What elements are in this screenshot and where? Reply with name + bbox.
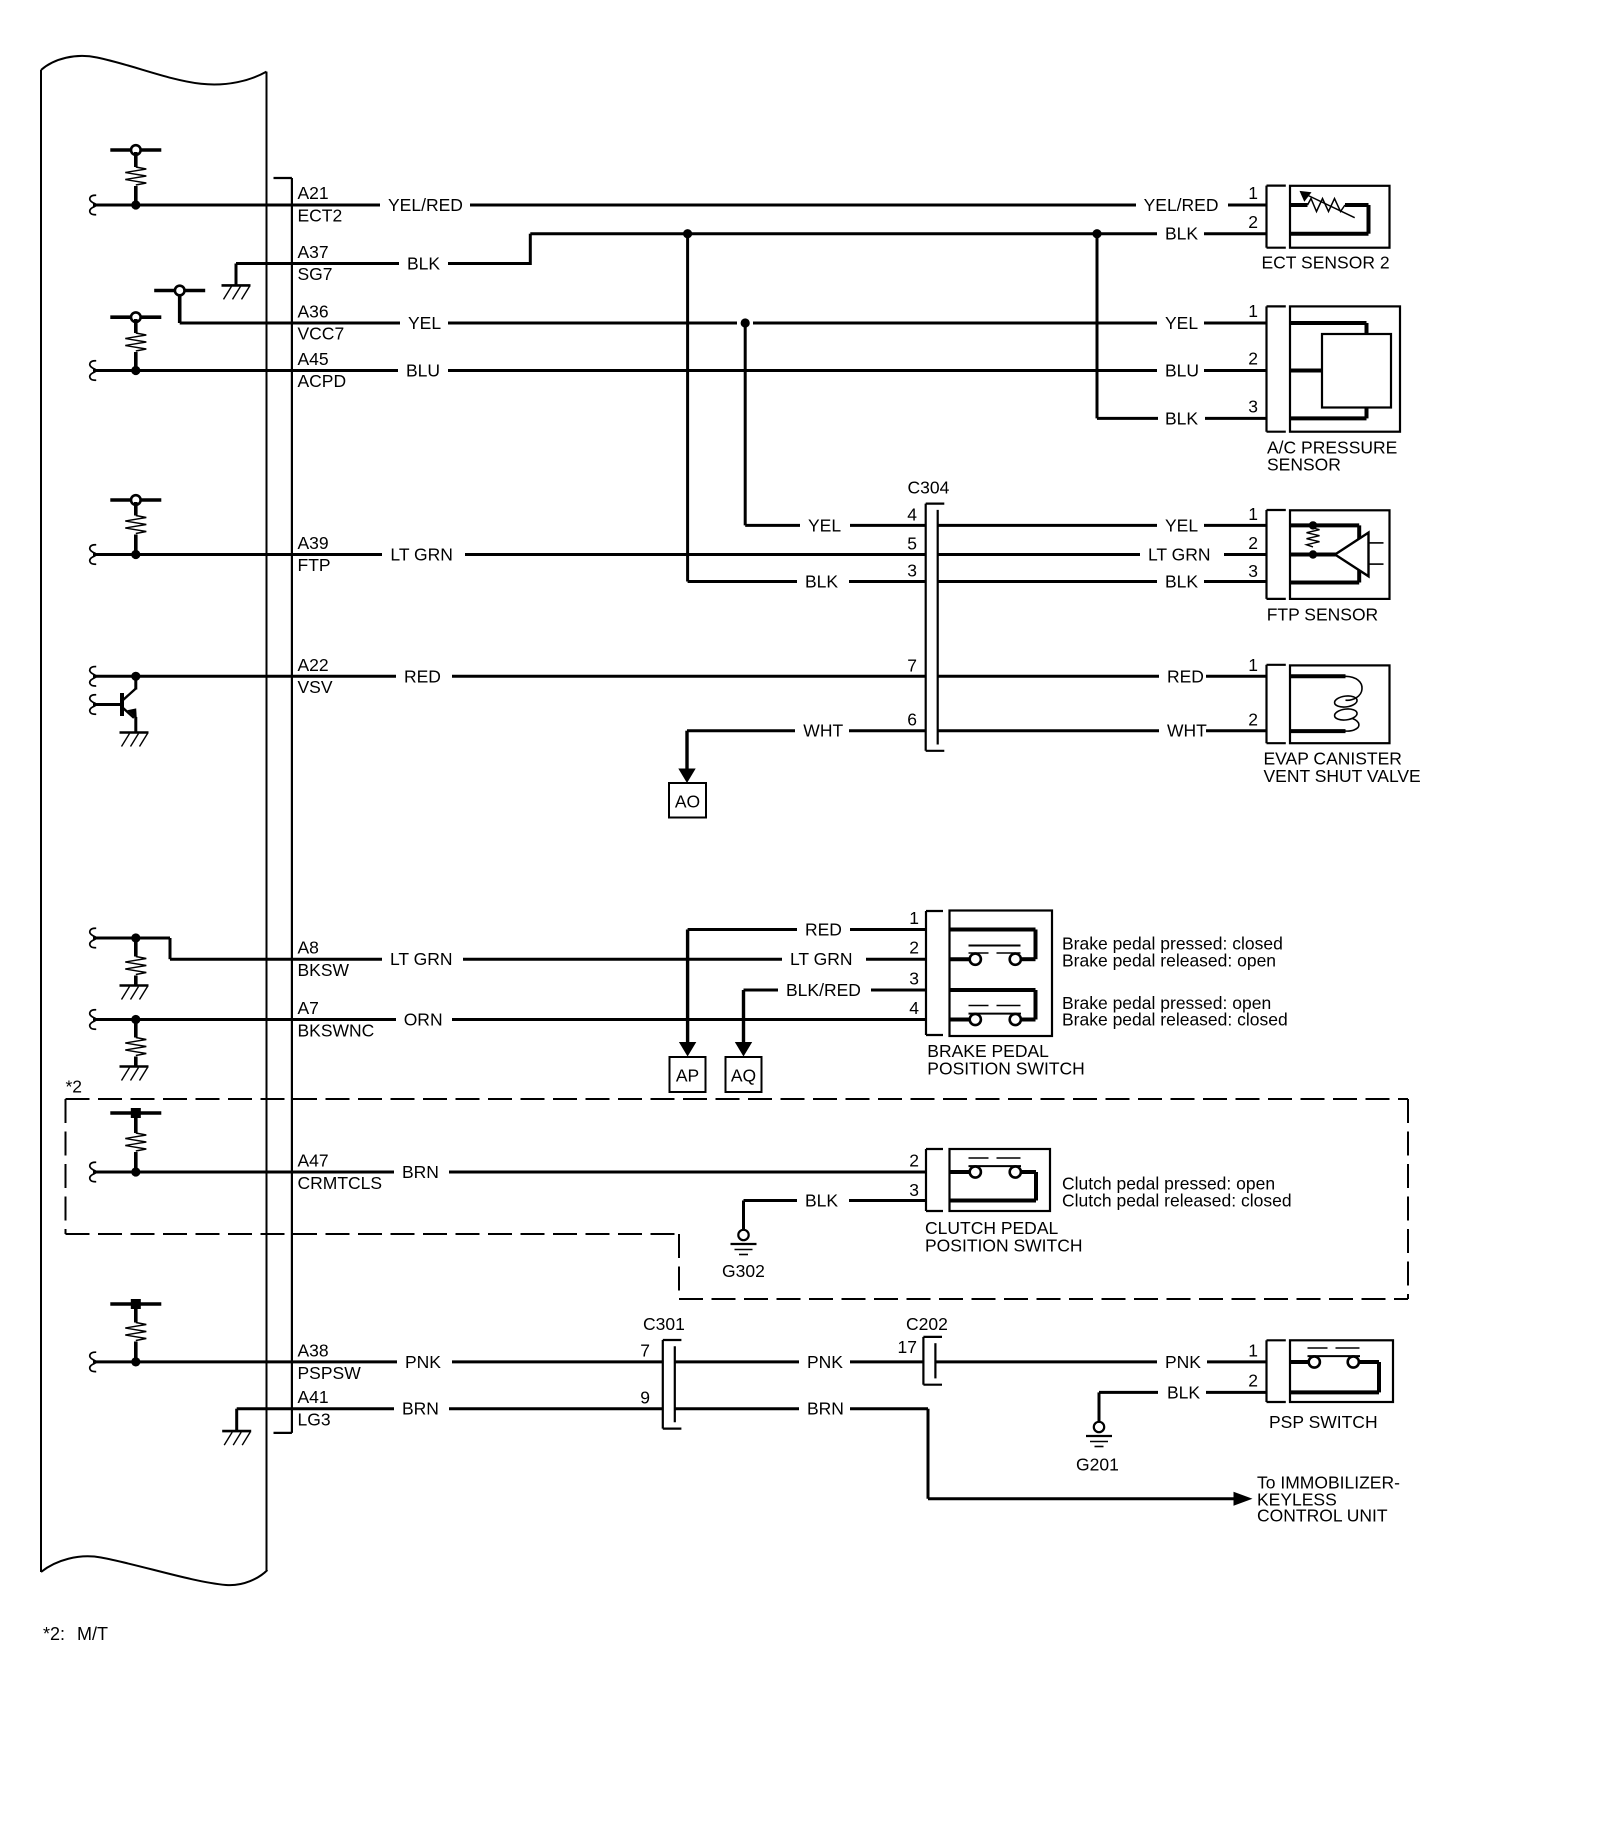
pin 2 (ECT sensor) bbox=[1248, 212, 1258, 232]
label LT GRN (A8 left) bbox=[390, 949, 453, 969]
svg-text:*2:: *2: bbox=[43, 1624, 65, 1644]
label BLU (right) bbox=[1165, 361, 1199, 381]
terminal label ACPD bbox=[298, 371, 347, 391]
svg-text:YEL: YEL bbox=[1165, 515, 1198, 535]
svg-text:17: 17 bbox=[898, 1337, 917, 1357]
pin label A38 bbox=[298, 1340, 329, 1360]
svg-text:AO: AO bbox=[675, 792, 700, 812]
note clutch switch states bbox=[1062, 1174, 1292, 1211]
svg-text:LT GRN: LT GRN bbox=[790, 949, 853, 969]
svg-text:1: 1 bbox=[1248, 655, 1258, 675]
label YEL (left) bbox=[408, 313, 441, 333]
wire WHT (C304 pin 6) bbox=[687, 729, 1267, 732]
svg-text:3: 3 bbox=[909, 1180, 919, 1200]
svg-text:LT GRN: LT GRN bbox=[390, 545, 453, 565]
svg-text:3: 3 bbox=[1248, 397, 1258, 417]
label LT GRN (brake switch side) bbox=[790, 949, 853, 969]
resistor pull-up (A47 CRMTCLS line) bbox=[110, 1108, 161, 1172]
svg-text:LG3: LG3 bbox=[298, 1410, 331, 1430]
connector bracket EVAP valve bbox=[1267, 665, 1286, 743]
node box AP bbox=[670, 1057, 706, 1092]
svg-text:3: 3 bbox=[909, 969, 919, 989]
svg-text:YEL/RED: YEL/RED bbox=[388, 195, 463, 215]
svg-text:YEL: YEL bbox=[408, 313, 441, 333]
svg-text:YEL/RED: YEL/RED bbox=[1144, 195, 1219, 215]
wire BLK (clutch switch pin 3) bbox=[744, 1201, 927, 1230]
svg-text:BLK: BLK bbox=[1165, 408, 1198, 428]
terminal label FTP bbox=[298, 555, 331, 575]
component box BRAKE PEDAL POSITION SWITCH bbox=[950, 911, 1053, 1037]
note To IMMOBILIZER-KEYLESS CONTROL UNIT bbox=[1257, 1473, 1400, 1526]
svg-text:BLK: BLK bbox=[407, 254, 440, 274]
svg-text:2: 2 bbox=[1248, 1370, 1258, 1390]
svg-text:A37: A37 bbox=[298, 242, 329, 262]
svg-text:RED: RED bbox=[404, 666, 441, 686]
svg-text:LT GRN: LT GRN bbox=[390, 949, 453, 969]
label A/C PRESSURE SENSOR bbox=[1267, 438, 1397, 475]
pin 9 (C301) bbox=[640, 1388, 650, 1408]
svg-text:G302: G302 bbox=[722, 1261, 765, 1281]
junction on A22 wire bbox=[131, 672, 140, 681]
ground (A8 pull-down) bbox=[120, 986, 149, 1000]
svg-text:PSPSW: PSPSW bbox=[298, 1363, 362, 1383]
svg-text:WHT: WHT bbox=[1167, 721, 1207, 741]
arrow to AO bbox=[678, 731, 695, 783]
svg-text:ACPD: ACPD bbox=[298, 371, 347, 391]
node box AQ bbox=[726, 1057, 762, 1092]
terminal label BKSWNC bbox=[298, 1021, 375, 1041]
note *2: M/T bbox=[43, 1624, 108, 1644]
pin 2 (PSP switch) bbox=[1248, 1370, 1258, 1390]
pin label A47 bbox=[298, 1151, 329, 1171]
wire A39 FTP LT GRN bbox=[90, 545, 926, 564]
wire A38 PSPSW PNK bbox=[90, 1352, 663, 1371]
connector bracket brake pedal switch bbox=[926, 911, 943, 1035]
label PNK (left) bbox=[405, 1352, 441, 1372]
svg-text:A8: A8 bbox=[298, 938, 319, 958]
resistor pull-up (A45 ACPD line) bbox=[110, 312, 161, 370]
wire A36 VCC7 YEL bbox=[180, 322, 1267, 325]
svg-text:PNK: PNK bbox=[1165, 1352, 1201, 1372]
solenoid coil inside EVAP valve bbox=[1290, 676, 1362, 731]
svg-text:FTP: FTP bbox=[298, 555, 331, 575]
svg-text:VCC7: VCC7 bbox=[298, 324, 345, 344]
wire BRN (C301 to immobilizer) bbox=[675, 1409, 1235, 1499]
label YEL/RED (right) bbox=[1144, 195, 1219, 215]
label YEL (C304 side) bbox=[808, 515, 841, 535]
pin 4 (C304) bbox=[907, 504, 917, 524]
wire YEL down to C304 pin 4 bbox=[745, 323, 926, 525]
pin 2 (clutch switch) bbox=[909, 1151, 919, 1171]
svg-text:PNK: PNK bbox=[405, 1352, 441, 1372]
wire YEL/RED (right) bbox=[1228, 204, 1267, 207]
label C304 bbox=[908, 478, 950, 498]
svg-text:2: 2 bbox=[909, 938, 919, 958]
svg-text:PNK: PNK bbox=[807, 1352, 843, 1372]
label RED (left) bbox=[404, 666, 441, 686]
switch contacts (PSP NC) bbox=[1290, 1348, 1379, 1392]
label BLU (left) bbox=[406, 361, 440, 381]
ground LG3 (inside ECU) bbox=[222, 1409, 292, 1445]
internal element FTP sensor bbox=[1290, 521, 1384, 582]
wire BLK/RED (brake switch pin 3) bbox=[744, 989, 927, 992]
svg-text:BLK: BLK bbox=[1167, 1382, 1200, 1402]
label BLK (A37) bbox=[407, 254, 440, 274]
svg-text:7: 7 bbox=[640, 1341, 650, 1361]
wire A8 BKSW LT GRN bbox=[170, 958, 926, 961]
pin 2 (FTP sensor) bbox=[1248, 533, 1258, 553]
pin 7 (C301) bbox=[640, 1341, 650, 1361]
svg-text:A7: A7 bbox=[298, 998, 319, 1018]
svg-text:SG7: SG7 bbox=[298, 264, 333, 284]
pin label A7 bbox=[298, 998, 319, 1018]
terminal label VSV bbox=[298, 677, 333, 697]
label BLK (PSP) bbox=[1167, 1382, 1200, 1402]
arrow to immobilizer unit bbox=[1234, 1492, 1253, 1506]
resistor pull-up (A38 PSPSW line) bbox=[110, 1299, 161, 1362]
pin 3 (A/C sensor) bbox=[1248, 397, 1258, 417]
label BLK/RED bbox=[786, 980, 861, 1000]
svg-text:BKSWNC: BKSWNC bbox=[298, 1021, 375, 1041]
svg-text:BLU: BLU bbox=[406, 361, 440, 381]
svg-text:A39: A39 bbox=[298, 533, 329, 553]
label PNK (mid) bbox=[807, 1352, 843, 1372]
internal element A/C pressure sensor bbox=[1290, 323, 1391, 418]
pin 5 (C304) bbox=[907, 534, 917, 554]
svg-text:YEL: YEL bbox=[808, 515, 841, 535]
junction on A39 wire bbox=[131, 550, 140, 559]
terminal label VCC7 bbox=[298, 324, 345, 344]
label BRN (A41) bbox=[402, 1399, 439, 1419]
svg-text:3: 3 bbox=[907, 561, 917, 581]
label PNK (right) bbox=[1165, 1352, 1201, 1372]
dashed box (M/T only section) bbox=[66, 1099, 1409, 1299]
note brake switch states 2 bbox=[1062, 993, 1288, 1030]
pin 1 (FTP sensor) bbox=[1248, 504, 1258, 524]
switch contacts (brake NO, pins 1-2) bbox=[950, 930, 1036, 965]
arrow to AQ bbox=[735, 990, 752, 1057]
svg-text:2: 2 bbox=[909, 1151, 919, 1171]
pin label A36 bbox=[298, 302, 329, 322]
pin label A21 bbox=[298, 183, 329, 203]
svg-text:FTP SENSOR: FTP SENSOR bbox=[1267, 605, 1379, 625]
svg-text:BRN: BRN bbox=[402, 1399, 439, 1419]
svg-text:A22: A22 bbox=[298, 655, 329, 675]
junction BLK to A/C sensor bbox=[1092, 229, 1101, 238]
svg-text:ORN: ORN bbox=[404, 1010, 443, 1030]
svg-text:9: 9 bbox=[640, 1388, 650, 1408]
svg-text:*2: *2 bbox=[66, 1077, 83, 1097]
svg-text:5: 5 bbox=[907, 534, 917, 554]
component box CLUTCH PEDAL POSITION SWITCH bbox=[950, 1149, 1051, 1211]
pin 1 (EVAP valve) bbox=[1248, 655, 1258, 675]
svg-text:3: 3 bbox=[1248, 561, 1258, 581]
connector bracket clutch pedal switch bbox=[926, 1149, 943, 1211]
ECU control module outline (torn box) bbox=[41, 56, 267, 1585]
wire RED (C304 to EVAP valve) bbox=[938, 675, 1267, 678]
svg-text:1: 1 bbox=[1248, 183, 1258, 203]
svg-text:BRN: BRN bbox=[807, 1399, 844, 1419]
svg-text:A47: A47 bbox=[298, 1151, 329, 1171]
component box FTP SENSOR bbox=[1290, 510, 1390, 599]
wire BLK (PSP switch pin 2) bbox=[1099, 1392, 1267, 1421]
svg-text:SENSOR: SENSOR bbox=[1267, 455, 1341, 475]
label BRN (A47) bbox=[402, 1162, 439, 1182]
label LT GRN (left) bbox=[390, 545, 453, 565]
wire PNK (C301 to C202) bbox=[675, 1360, 924, 1363]
svg-text:RED: RED bbox=[1167, 666, 1204, 686]
terminal label BKSW bbox=[298, 960, 350, 980]
resistor to ground (A7 BKSWNC line) bbox=[90, 1010, 147, 1067]
ground SG7 (inside ECU) bbox=[222, 264, 292, 300]
pin 1 (A/C sensor) bbox=[1248, 301, 1258, 321]
pin label A39 bbox=[298, 533, 329, 553]
wire YEL (C304 to FTP pin 1) bbox=[938, 524, 1267, 527]
label BLK (ECT sensor side) bbox=[1165, 224, 1198, 244]
pin 1 (PSP switch) bbox=[1248, 1340, 1258, 1360]
label RED (brake) bbox=[805, 920, 842, 940]
label BLK (A/C sensor pin 3) bbox=[1165, 408, 1198, 428]
svg-text:LT GRN: LT GRN bbox=[1148, 545, 1211, 565]
pin 17 (C202) bbox=[898, 1337, 917, 1357]
svg-text:1: 1 bbox=[909, 908, 919, 928]
svg-text:ECT SENSOR 2: ECT SENSOR 2 bbox=[1262, 253, 1390, 273]
svg-text:1: 1 bbox=[1248, 1340, 1258, 1360]
connector bracket A/C pressure sensor bbox=[1267, 306, 1286, 431]
svg-text:BLU: BLU bbox=[1165, 361, 1199, 381]
svg-text:POSITION SWITCH: POSITION SWITCH bbox=[927, 1059, 1085, 1079]
ground G302 bbox=[731, 1230, 757, 1255]
pin 2 (EVAP valve) bbox=[1248, 710, 1258, 730]
svg-text:BLK: BLK bbox=[1165, 224, 1198, 244]
resistor to ground (A8 BKSW line) bbox=[90, 928, 170, 985]
svg-text:2: 2 bbox=[1248, 710, 1258, 730]
svg-text:2: 2 bbox=[1248, 212, 1258, 232]
junction on A47 wire bbox=[131, 1167, 140, 1176]
junction on A38 wire bbox=[131, 1357, 140, 1366]
connector bracket FTP sensor bbox=[1267, 510, 1286, 599]
svg-text:M/T: M/T bbox=[77, 1624, 108, 1644]
svg-text:CRMTCLS: CRMTCLS bbox=[298, 1173, 383, 1193]
switch contacts (clutch NC) bbox=[950, 1158, 1037, 1201]
svg-text:BRN: BRN bbox=[402, 1162, 439, 1182]
svg-text:7: 7 bbox=[907, 655, 917, 675]
label FTP SENSOR bbox=[1267, 605, 1379, 625]
label RED (right) bbox=[1167, 666, 1204, 686]
label YEL (right) bbox=[1165, 313, 1198, 333]
connector bracket PSP switch bbox=[1267, 1340, 1286, 1402]
label G302 bbox=[722, 1261, 765, 1281]
svg-text:G201: G201 bbox=[1076, 1455, 1119, 1475]
wire A7 BKSWNC ORN bbox=[93, 1018, 926, 1021]
label YEL (FTP side) bbox=[1165, 515, 1198, 535]
label PSP SWITCH bbox=[1269, 1412, 1378, 1432]
wire A47 CRMTCLS BRN bbox=[90, 1162, 926, 1181]
label BLK (clutch) bbox=[805, 1191, 838, 1211]
label G201 bbox=[1076, 1455, 1119, 1475]
svg-text:C202: C202 bbox=[906, 1314, 948, 1334]
wire LT GRN (C304 to FTP sensor) bbox=[938, 553, 1267, 556]
label BLK (FTP side) bbox=[1165, 572, 1198, 592]
note *2 bbox=[66, 1077, 83, 1097]
pin 3 (clutch switch) bbox=[909, 1180, 919, 1200]
label EVAP CANISTER VENT SHUT VALVE bbox=[1264, 749, 1421, 787]
pin 6 (C304) bbox=[907, 710, 917, 730]
connector C202 bbox=[923, 1337, 942, 1385]
terminal label LG3 bbox=[298, 1410, 331, 1430]
connector C301 bbox=[663, 1340, 682, 1429]
wire BLK (C304 to FTP pin 3) bbox=[938, 580, 1267, 583]
label BLK (C304 side) bbox=[805, 572, 838, 592]
wire A41 LG3 BRN bbox=[292, 1407, 663, 1410]
svg-text:A45: A45 bbox=[298, 349, 329, 369]
svg-text:2: 2 bbox=[1248, 533, 1258, 553]
junction on A21 wire bbox=[131, 200, 140, 209]
svg-text:1: 1 bbox=[1248, 504, 1258, 524]
svg-text:4: 4 bbox=[907, 504, 917, 524]
component box A/C PRESSURE SENSOR bbox=[1290, 306, 1400, 431]
resistor pull-up (A39 FTP line) bbox=[110, 495, 161, 554]
switch contacts (brake NC, pins 3-4) bbox=[950, 990, 1036, 1025]
terminal label SG7 bbox=[298, 264, 333, 284]
label C301 bbox=[643, 1314, 685, 1334]
svg-text:Brake pedal released: open: Brake pedal released: open bbox=[1062, 951, 1276, 971]
svg-text:ECT2: ECT2 bbox=[298, 206, 343, 226]
arrow to AP bbox=[679, 930, 696, 1057]
svg-text:BLK/RED: BLK/RED bbox=[786, 980, 861, 1000]
pin 2 (A/C sensor) bbox=[1248, 349, 1258, 369]
label LT GRN (right) bbox=[1148, 545, 1211, 565]
wire BLK down to C304 pin 3 bbox=[688, 234, 926, 582]
svg-text:PSP SWITCH: PSP SWITCH bbox=[1269, 1412, 1378, 1432]
transistor Q (VSV driver) bbox=[90, 676, 137, 732]
pin label A37 bbox=[298, 242, 329, 262]
terminal label ECT2 bbox=[298, 206, 343, 226]
connector C304 bbox=[926, 504, 945, 751]
svg-text:A38: A38 bbox=[298, 1340, 329, 1360]
pin label A22 bbox=[298, 655, 329, 675]
component box PSP SWITCH bbox=[1290, 1340, 1393, 1402]
svg-text:Brake pedal released: closed: Brake pedal released: closed bbox=[1062, 1010, 1288, 1030]
thermistor inside ECT sensor 2 bbox=[1290, 191, 1369, 234]
label YEL/RED (left) bbox=[388, 195, 463, 215]
junction BLK to C304 bbox=[683, 229, 692, 238]
resistor pull-up (A21 ECT2 line) bbox=[110, 145, 161, 205]
pull-up tap VCC7 bbox=[154, 286, 205, 323]
svg-text:WHT: WHT bbox=[803, 721, 843, 741]
pin 4 (brake switch) bbox=[909, 998, 919, 1018]
svg-text:YEL: YEL bbox=[1165, 313, 1198, 333]
svg-text:BKSW: BKSW bbox=[298, 960, 350, 980]
svg-text:2: 2 bbox=[1248, 349, 1258, 369]
wire PNK (C202 to PSP switch) bbox=[935, 1360, 1266, 1363]
pin label A45 bbox=[298, 349, 329, 369]
pin 7 (C304) bbox=[907, 655, 917, 675]
svg-text:A41: A41 bbox=[298, 1387, 329, 1407]
svg-text:BLK: BLK bbox=[805, 1191, 838, 1211]
svg-text:VSV: VSV bbox=[298, 677, 333, 697]
node box AO bbox=[669, 783, 706, 818]
label BRN (mid) bbox=[807, 1399, 844, 1419]
pin 3 (C304) bbox=[907, 561, 917, 581]
component box EVAP VALVE bbox=[1290, 665, 1390, 743]
pin 2 (brake switch) bbox=[909, 938, 919, 958]
note brake switch states 1 bbox=[1062, 934, 1283, 971]
pin 3 (brake switch) bbox=[909, 969, 919, 989]
label WHT (mid) bbox=[803, 721, 843, 741]
label BRAKE PEDAL POSITION SWITCH bbox=[927, 1041, 1085, 1079]
svg-text:AP: AP bbox=[676, 1066, 699, 1086]
svg-text:A21: A21 bbox=[298, 183, 329, 203]
wire A22 VSV RED bbox=[90, 667, 926, 686]
junction on A45 wire bbox=[131, 366, 140, 375]
svg-text:POSITION SWITCH: POSITION SWITCH bbox=[925, 1236, 1083, 1256]
pin 1 (brake switch) bbox=[909, 908, 919, 928]
label CLUTCH PEDAL POSITION SWITCH bbox=[925, 1218, 1083, 1256]
pin label A8 bbox=[298, 938, 319, 958]
ECM connector strip bbox=[274, 178, 292, 1433]
svg-text:AQ: AQ bbox=[731, 1066, 756, 1086]
svg-text:4: 4 bbox=[909, 998, 919, 1018]
connector bracket ECT sensor 2 bbox=[1267, 186, 1286, 248]
svg-text:C304: C304 bbox=[908, 478, 950, 498]
svg-text:Clutch pedal released: closed: Clutch pedal released: closed bbox=[1062, 1191, 1292, 1211]
svg-text:BLK: BLK bbox=[1165, 572, 1198, 592]
svg-text:BLK: BLK bbox=[805, 572, 838, 592]
label C202 bbox=[906, 1314, 948, 1334]
svg-text:1: 1 bbox=[1248, 301, 1258, 321]
junction YEL to C304 bbox=[741, 318, 750, 327]
ground G201 bbox=[1086, 1422, 1112, 1447]
pin 3 (FTP sensor) bbox=[1248, 561, 1258, 581]
terminal label PSPSW bbox=[298, 1363, 362, 1383]
pin label A41 bbox=[298, 1387, 329, 1407]
label ECT SENSOR 2 bbox=[1262, 253, 1390, 273]
label ORN (left) bbox=[404, 1010, 443, 1030]
svg-text:CONTROL UNIT: CONTROL UNIT bbox=[1257, 1506, 1388, 1526]
wire BLK down to A/C sensor pin 3 bbox=[1097, 234, 1267, 419]
wire A45 ACPD BLU bbox=[90, 361, 1267, 380]
label WHT (right) bbox=[1167, 721, 1207, 741]
wire A21 ECT2 YEL/RED (left) bbox=[90, 195, 1136, 214]
svg-text:VENT SHUT VALVE: VENT SHUT VALVE bbox=[1264, 766, 1421, 786]
wire A37 SG7 BLK bbox=[292, 234, 1267, 265]
terminal label CRMTCLS bbox=[298, 1173, 383, 1193]
ground (A7 pull-down) bbox=[120, 1067, 149, 1081]
svg-text:RED: RED bbox=[805, 920, 842, 940]
wire RED (brake switch pin 1) bbox=[688, 928, 926, 931]
ground (transistor emitter) bbox=[120, 733, 149, 747]
component box ECT SENSOR 2 bbox=[1290, 186, 1390, 248]
pin 1 (ECT sensor) bbox=[1248, 183, 1258, 203]
svg-text:C301: C301 bbox=[643, 1314, 685, 1334]
svg-text:6: 6 bbox=[907, 710, 917, 730]
svg-text:A36: A36 bbox=[298, 302, 329, 322]
